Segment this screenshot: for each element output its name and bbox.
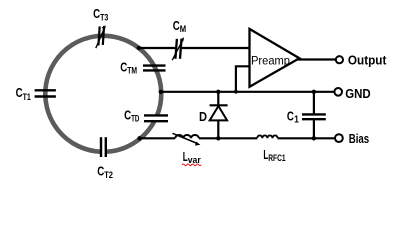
svg-text:TM: TM <box>127 66 137 77</box>
bias rail wire from L_var to L_RFC1 <box>199 137 257 139</box>
svg-text:Output: Output <box>348 53 387 67</box>
inductor L_var (variable) <box>175 135 199 138</box>
svg-text:Preamp: Preamp <box>251 54 290 68</box>
junction dot at loop right tap <box>159 90 163 94</box>
capacitor C_1 <box>302 114 326 119</box>
red spellcheck squiggle under L_var <box>182 164 201 166</box>
GND rail wire from loop right tap to GND terminal <box>161 91 334 93</box>
Bias terminal circle <box>335 134 343 142</box>
junction dot C_1 top on GND rail <box>312 90 316 94</box>
inductor L_RFC1 <box>257 135 277 138</box>
junction dot C_1 bottom on bias rail <box>312 136 316 140</box>
GND terminal circle <box>334 88 342 96</box>
svg-text:TD: TD <box>131 114 139 125</box>
capacitor C_TM (right-upper of loop) <box>143 66 166 71</box>
junction dot at loop bottom tap <box>137 136 141 140</box>
svg-text:1: 1 <box>294 115 299 126</box>
arrow of variable capacitor C_T3 <box>96 25 106 48</box>
diode D <box>210 92 228 139</box>
junction dot diode bottom on bias rail <box>216 136 220 140</box>
svg-text:T3: T3 <box>100 13 108 24</box>
op-amp U1 Preamp triangle <box>250 29 300 87</box>
svg-text:D: D <box>199 109 207 124</box>
arrow of variable inductor L_var <box>173 133 201 145</box>
capacitor C_T2 (bottom of loop) <box>101 137 106 157</box>
svg-text:C: C <box>287 109 294 124</box>
capacitor C_TD (right-lower of loop) <box>144 115 168 121</box>
capacitor C_1 vertical link wires <box>313 92 315 115</box>
Output terminal circle <box>336 56 343 63</box>
wire preamp output to Output terminal <box>298 58 336 60</box>
bias rail wire from L_RFC1 to Bias terminal <box>278 137 336 139</box>
junction dot lower input on GND rail <box>234 90 238 94</box>
loop antenna coil (gray arc, gap at C_T2 bottom and C_TD right) <box>45 36 161 152</box>
svg-text:GND: GND <box>345 87 371 101</box>
wire from C_M to preamp upper input <box>181 47 250 49</box>
junction dot diode top on GND rail <box>216 90 220 94</box>
arrow of variable capacitor C_M <box>172 37 184 60</box>
svg-text:Bias: Bias <box>349 132 370 146</box>
svg-text:RFC1: RFC1 <box>268 153 286 164</box>
capacitor C_T1 (left of loop) <box>35 90 56 96</box>
svg-text:T1: T1 <box>23 92 32 103</box>
capacitor C_T3 (variable, top of loop) <box>98 26 104 46</box>
wire preamp lower input (L-shaped) <box>236 66 250 92</box>
svg-text:T2: T2 <box>104 170 113 181</box>
bias rail wire from loop bottom tap to L_var <box>140 137 176 139</box>
capacitor C_M (variable, coupling) <box>175 39 181 59</box>
junction dot at loop top tap <box>137 46 141 50</box>
wire from loop top tap to C_M <box>139 47 175 49</box>
svg-text:M: M <box>180 24 186 35</box>
